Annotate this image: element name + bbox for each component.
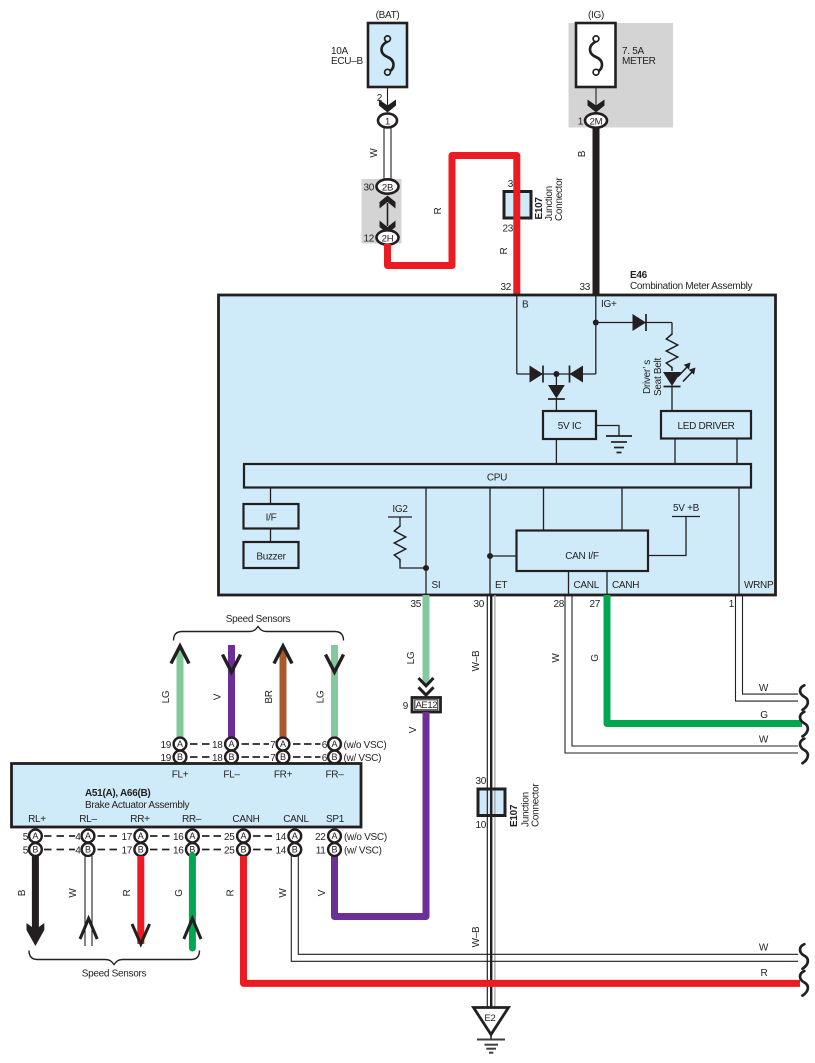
svg-text:(w/o VSC): (w/o VSC) xyxy=(344,740,387,751)
ground E2 triangle xyxy=(474,1008,509,1035)
svg-text:ET: ET xyxy=(495,580,507,591)
svg-text:METER: METER xyxy=(622,56,656,67)
svg-text:W: W xyxy=(759,735,769,746)
connector row B bottom xyxy=(29,843,341,856)
svg-text:A: A xyxy=(292,831,298,841)
svg-text:I/F: I/F xyxy=(266,513,277,524)
svg-text:6: 6 xyxy=(322,740,328,751)
svg-text:B: B xyxy=(32,845,38,855)
wire resistor to SI node xyxy=(400,563,426,568)
arrow up G xyxy=(184,919,201,940)
junction connector E107 top box xyxy=(504,192,531,219)
svg-text:A: A xyxy=(189,831,195,841)
svg-text:G: G xyxy=(760,710,768,721)
svg-text:27: 27 xyxy=(589,599,600,610)
wire IG+ to diode D3 xyxy=(596,322,672,324)
wire G CANH pin 27 to right xyxy=(607,595,802,724)
arrow down into 2M xyxy=(588,100,605,113)
svg-text:Connector: Connector xyxy=(554,177,565,221)
svg-text:E107: E107 xyxy=(509,804,520,827)
svg-text:25: 25 xyxy=(224,832,235,843)
svg-text:W–B: W–B xyxy=(471,926,482,947)
svg-text:18: 18 xyxy=(212,740,223,751)
LED emission arrows xyxy=(678,367,693,382)
brace speed sensors bottom xyxy=(29,951,200,965)
junction connector E107 lower xyxy=(478,789,505,816)
svg-text:R: R xyxy=(761,968,768,979)
wire dot to diode D4 xyxy=(555,374,557,385)
wire W WRNP pin 1 to right xyxy=(736,595,799,701)
svg-text:B: B xyxy=(240,845,246,855)
svg-text:B: B xyxy=(138,845,144,855)
svg-text:A: A xyxy=(138,831,144,841)
LED seat belt xyxy=(663,372,681,386)
svg-text:CANL: CANL xyxy=(574,580,600,591)
svg-text:33: 33 xyxy=(579,282,590,293)
svg-text:23: 23 xyxy=(502,224,513,235)
svg-text:5: 5 xyxy=(23,832,29,843)
wire 5V IC to CPU xyxy=(555,439,557,464)
5V +B supply bar xyxy=(672,516,700,518)
svg-text:A: A xyxy=(85,831,91,841)
shield chevrons to AE12 xyxy=(419,678,434,686)
wire W CANL pin 28 to right xyxy=(565,595,798,753)
wire BR FR+ sensor xyxy=(280,649,287,740)
svg-text:W: W xyxy=(759,683,769,694)
IG2 supply bar xyxy=(388,516,412,518)
dashes top rows xyxy=(190,744,321,757)
wire V purple SP1 to AE12 xyxy=(335,712,427,917)
diode D4 xyxy=(548,385,565,399)
svg-text:14: 14 xyxy=(275,832,286,843)
svg-text:(BAT): (BAT) xyxy=(376,10,400,21)
CAN I/F box xyxy=(517,531,649,572)
wire W RL- down xyxy=(84,856,86,946)
wire to resistor xyxy=(671,323,673,336)
svg-text:Combination Meter Assembly: Combination Meter Assembly xyxy=(630,281,753,292)
svg-text:W–B: W–B xyxy=(471,650,482,671)
diode D2 xyxy=(570,366,584,383)
fuse METER box xyxy=(576,23,616,87)
svg-text:R: R xyxy=(226,889,237,896)
connector oval 2B xyxy=(377,179,399,193)
svg-text:ECU–B: ECU–B xyxy=(331,56,363,67)
svg-text:5: 5 xyxy=(23,846,29,857)
svg-text:RL–: RL– xyxy=(79,814,97,825)
connector oval 2H xyxy=(377,230,399,244)
svg-text:30: 30 xyxy=(363,183,374,194)
svg-text:17: 17 xyxy=(121,846,132,857)
svg-text:CAN I/F: CAN I/F xyxy=(565,551,599,562)
wire node IG+ inside xyxy=(595,295,597,374)
svg-text:Speed Sensors: Speed Sensors xyxy=(226,614,291,625)
svg-text:LED DRIVER: LED DRIVER xyxy=(677,421,734,432)
svg-text:FR+: FR+ xyxy=(274,770,293,781)
diode D1 xyxy=(530,366,544,383)
arrow down into connector 1 xyxy=(379,100,396,113)
svg-text:E46: E46 xyxy=(630,270,648,281)
wire D4 to 5V IC xyxy=(555,399,557,411)
svg-text:A: A xyxy=(240,831,246,841)
junction dot IG+ xyxy=(593,320,599,326)
svg-text:A: A xyxy=(331,831,337,841)
svg-text:IG2: IG2 xyxy=(392,504,408,515)
svg-text:Seat Belt: Seat Belt xyxy=(653,358,664,396)
svg-text:Driver’ s: Driver’ s xyxy=(642,360,653,394)
svg-text:A: A xyxy=(228,739,234,749)
wire 5V IC to ground xyxy=(596,426,619,436)
svg-text:CANH: CANH xyxy=(232,814,259,825)
arrow up W xyxy=(80,919,97,940)
svg-text:22: 22 xyxy=(315,832,326,843)
svg-text:17: 17 xyxy=(121,832,132,843)
resistor IG2 xyxy=(394,526,405,563)
connector AE12 xyxy=(412,698,441,713)
svg-text:LG: LG xyxy=(406,651,417,664)
svg-text:B: B xyxy=(331,752,337,762)
svg-text:2M: 2M xyxy=(590,117,603,128)
CPU box xyxy=(244,464,751,488)
wires LED DRIVER to CPU xyxy=(674,439,676,465)
svg-text:W: W xyxy=(369,148,380,158)
svg-text:4: 4 xyxy=(75,846,81,857)
svg-text:1: 1 xyxy=(385,117,390,128)
svg-text:B: B xyxy=(292,845,298,855)
arrow down LG2 xyxy=(326,655,344,673)
svg-text:LG: LG xyxy=(161,690,172,703)
brace speed sensors top xyxy=(174,627,344,641)
svg-text:CANL: CANL xyxy=(283,814,309,825)
wire WRNP inside xyxy=(738,488,740,596)
svg-text:FR–: FR– xyxy=(326,770,345,781)
break symbol R bottom xyxy=(800,971,808,996)
fuse element ECU-B xyxy=(382,42,394,73)
wire V FL- sensor xyxy=(228,645,235,740)
svg-text:16: 16 xyxy=(173,832,184,843)
wire 5V +B to CAN I/F xyxy=(648,517,686,556)
svg-text:V: V xyxy=(408,726,419,733)
svg-text:B: B xyxy=(177,752,183,762)
arrow down R xyxy=(132,924,150,944)
wire G RR- down xyxy=(189,856,196,948)
svg-text:3: 3 xyxy=(508,179,514,190)
svg-text:FL+: FL+ xyxy=(172,770,189,781)
wires CPU to CAN I/F xyxy=(543,488,545,531)
svg-text:35: 35 xyxy=(410,599,421,610)
wire W CANL to right edge xyxy=(291,856,798,961)
svg-text:B: B xyxy=(577,150,588,157)
svg-text:WRNP: WRNP xyxy=(744,580,774,591)
break symbol G xyxy=(800,712,808,737)
junction dot SI xyxy=(423,565,429,571)
svg-text:CPU: CPU xyxy=(487,473,507,484)
svg-text:Connector: Connector xyxy=(531,783,542,827)
svg-text:A: A xyxy=(331,739,337,749)
svg-text:V: V xyxy=(213,693,224,700)
wire R CANH to right edge xyxy=(244,856,801,983)
svg-text:G: G xyxy=(590,654,601,662)
connector row B top xyxy=(174,751,341,764)
wire B black xyxy=(593,128,600,297)
wire fuse to connector 1 xyxy=(387,87,389,106)
svg-text:W: W xyxy=(551,653,562,663)
svg-text:IG+: IG+ xyxy=(601,299,617,310)
wire SI xyxy=(425,488,427,596)
svg-text:Speed Sensors: Speed Sensors xyxy=(82,969,147,980)
junction dot ET xyxy=(487,553,493,559)
connector row A bottom xyxy=(29,830,341,843)
wire LED to LED DRIVER xyxy=(671,386,673,411)
svg-text:W: W xyxy=(278,888,289,898)
break symbol CANL xyxy=(800,739,808,764)
fuse ECU-B box xyxy=(368,23,407,87)
svg-text:30: 30 xyxy=(473,599,484,610)
diode D3 xyxy=(633,314,647,331)
wire node B inside xyxy=(516,295,518,374)
svg-text:2B: 2B xyxy=(382,183,393,194)
fuse element METER xyxy=(590,42,602,73)
wire CPU to I/F xyxy=(270,488,272,505)
svg-text:9: 9 xyxy=(403,701,409,712)
svg-text:16: 16 xyxy=(173,846,184,857)
svg-text:V: V xyxy=(317,889,328,896)
ground E2 stem and bars xyxy=(490,1035,492,1040)
svg-text:1: 1 xyxy=(729,599,735,610)
svg-text:Brake Actuator Assembly: Brake Actuator Assembly xyxy=(85,800,190,811)
dashes bottom rows xyxy=(44,836,272,850)
svg-text:R: R xyxy=(499,247,510,254)
Buzzer box xyxy=(244,542,299,568)
wire W double line xyxy=(383,128,385,181)
svg-text:W: W xyxy=(759,943,769,954)
svg-text:2H: 2H xyxy=(382,234,394,245)
svg-text:(w/ VSC): (w/ VSC) xyxy=(344,846,382,857)
connector oval 1 xyxy=(378,114,397,128)
wire CANL inside xyxy=(568,571,570,595)
svg-text:Buzzer: Buzzer xyxy=(256,552,286,563)
E46 combination meter assembly box xyxy=(219,295,776,595)
svg-text:A: A xyxy=(32,831,38,841)
svg-text:SP1: SP1 xyxy=(326,814,345,825)
wire between arrows xyxy=(387,203,389,226)
arrow down V xyxy=(223,655,241,673)
arrow down to 2H xyxy=(380,221,396,234)
wire B RL+ down xyxy=(32,856,39,935)
svg-text:11: 11 xyxy=(316,846,327,857)
break symbol W bottom xyxy=(800,944,808,969)
fuse 7.5A METER gray background xyxy=(569,23,674,128)
svg-text:A: A xyxy=(280,739,286,749)
svg-text:B: B xyxy=(522,300,529,311)
wire fuse to 2M xyxy=(595,87,597,106)
svg-text:RR–: RR– xyxy=(182,814,202,825)
wire R RR+ down xyxy=(137,856,144,944)
wire diode row from B xyxy=(517,373,596,375)
wire I/F to Buzzer xyxy=(270,529,272,543)
wire R red path 2H to pin 32 xyxy=(388,156,517,296)
junction block shading 2B/2H xyxy=(362,179,402,244)
connector oval 2M xyxy=(585,113,607,127)
svg-text:RL+: RL+ xyxy=(28,814,46,825)
wire ET to CAN I/F xyxy=(490,555,517,557)
svg-text:G: G xyxy=(174,889,185,897)
svg-text:(IG): (IG) xyxy=(588,10,604,21)
wire CANH inside xyxy=(606,571,608,595)
svg-text:BR: BR xyxy=(264,690,275,703)
5V IC box xyxy=(543,411,596,439)
svg-text:4: 4 xyxy=(75,832,81,843)
svg-text:5V IC: 5V IC xyxy=(558,421,582,432)
connector row A top xyxy=(174,738,341,751)
arrow up to 2B xyxy=(380,196,396,209)
I/F box xyxy=(244,504,299,529)
brake actuator assembly box A51/A66 xyxy=(12,764,362,828)
svg-text:AE12: AE12 xyxy=(415,700,437,711)
svg-text:B: B xyxy=(17,889,28,896)
wire LG FL+ sensor xyxy=(177,649,184,740)
svg-text:B: B xyxy=(85,845,91,855)
svg-text:R: R xyxy=(122,889,133,896)
svg-text:(w/o VSC): (w/o VSC) xyxy=(344,832,387,843)
wire W-B from ET pin 30 xyxy=(486,595,488,1007)
svg-text:FL–: FL– xyxy=(223,770,240,781)
svg-text:10: 10 xyxy=(475,820,486,831)
wire LG FR- sensor xyxy=(331,645,338,740)
wire LG from SI xyxy=(423,595,430,685)
break symbol WRNP xyxy=(800,685,808,710)
svg-text:W: W xyxy=(68,888,79,898)
LED DRIVER box xyxy=(661,411,751,439)
svg-text:E2: E2 xyxy=(484,1013,495,1024)
svg-text:19: 19 xyxy=(160,740,171,751)
svg-text:SI: SI xyxy=(432,580,441,591)
svg-text:25: 25 xyxy=(224,846,235,857)
wire ET xyxy=(489,488,491,596)
svg-text:7: 7 xyxy=(270,740,276,751)
arrow down B solid xyxy=(27,923,45,946)
svg-text:A: A xyxy=(177,739,183,749)
svg-text:B: B xyxy=(331,845,337,855)
junction dot diode row xyxy=(553,371,559,377)
svg-text:32: 32 xyxy=(500,282,511,293)
ground 5V IC xyxy=(606,435,632,437)
resistor seat belt lamp xyxy=(666,334,677,371)
arrow up BR xyxy=(274,646,292,664)
svg-text:R: R xyxy=(433,207,444,214)
svg-text:30: 30 xyxy=(475,776,486,787)
svg-text:CANH: CANH xyxy=(612,580,639,591)
svg-text:5V +B: 5V +B xyxy=(673,503,700,514)
svg-text:LG: LG xyxy=(316,690,327,703)
svg-text:B: B xyxy=(280,752,286,762)
svg-text:B: B xyxy=(228,752,234,762)
svg-text:12: 12 xyxy=(363,234,374,245)
svg-text:28: 28 xyxy=(553,599,564,610)
svg-text:A51(A), A66(B): A51(A), A66(B) xyxy=(85,788,150,799)
svg-text:RR+: RR+ xyxy=(130,814,150,825)
arrow up LG xyxy=(171,646,189,664)
svg-text:14: 14 xyxy=(275,846,286,857)
svg-text:1: 1 xyxy=(578,117,584,128)
